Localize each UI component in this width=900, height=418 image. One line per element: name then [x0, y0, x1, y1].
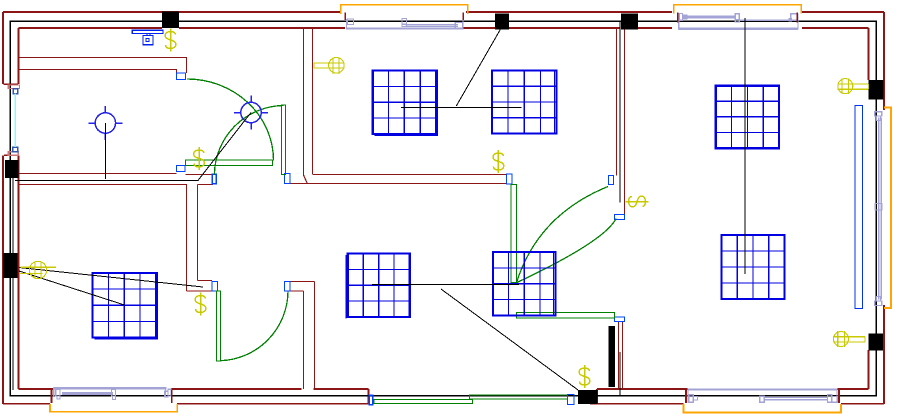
light panel grid3: [716, 86, 779, 149]
jamb J6: [507, 174, 513, 184]
window N1 sill (orange): [341, 5, 468, 14]
wall inner red right: [868, 28, 870, 389]
door E leaf: [517, 313, 615, 319]
jamb J5: [285, 282, 291, 292]
wall light WL1: [314, 58, 345, 74]
jamb J3: [285, 174, 291, 184]
window S3 sill (orange): [684, 404, 842, 413]
switch S3: [493, 150, 504, 173]
sliding door leaf 2: [470, 395, 568, 399]
switch S2: [194, 147, 205, 170]
switch S6: [579, 365, 590, 388]
wall outer red top: [3, 11, 884, 13]
window N1 stubs (red): [345, 13, 463, 21]
jamb J4: [212, 282, 218, 292]
wall outer red bottom: [3, 403, 884, 405]
door C arc: [517, 187, 609, 283]
jamb J9: [615, 317, 625, 322]
wire light L2 to switch: [198, 113, 251, 181]
wall light WL3: [838, 78, 869, 94]
wire west wall: [12, 177, 14, 390]
wire to column C2: [456, 29, 500, 106]
wall light WL4: [833, 331, 865, 347]
ceiling light L1: [89, 106, 123, 140]
wall outer red right: [883, 12, 885, 404]
light panel grid7: [722, 235, 785, 299]
light panel grid6: [493, 252, 556, 316]
column C6 east wall: [869, 80, 884, 100]
door D arc: [517, 219, 616, 283]
wall inner red left: [18, 28, 20, 389]
wall inner red top: [19, 27, 869, 29]
wall interior hall east upper: [304, 28, 313, 184]
column C7 east wall: [869, 334, 884, 351]
wire interior wall: [619, 352, 621, 396]
window W caps (red): [3, 84, 18, 155]
switch S1: [165, 29, 176, 52]
window N1 frame: [346, 19, 463, 30]
wire column C5 to grid4: [19, 271, 125, 305]
switch S4 (rotated): [626, 196, 649, 207]
jamb J7: [609, 176, 614, 185]
wire grid1-grid2: [401, 107, 522, 109]
wire light L1 drop: [104, 123, 106, 179]
switch S5: [195, 293, 206, 316]
window N2 frame: [679, 14, 798, 30]
wall interior left room south: [19, 174, 213, 292]
wall interior hall east lower: [290, 282, 315, 390]
jamb J10: [369, 395, 372, 404]
wall outer red left: [2, 12, 4, 404]
light panel grid5: [346, 254, 409, 319]
window S1 sill (orange): [50, 404, 177, 412]
door F leaf: [217, 291, 221, 361]
column C8 south wall: [578, 390, 598, 404]
light panel grid1: [373, 70, 438, 136]
jamb J1: [177, 73, 186, 80]
wall interior top-left strip: [19, 58, 187, 74]
jamb J8: [615, 215, 625, 220]
window S1 frame: [53, 387, 171, 399]
light panel grid2: [492, 71, 557, 134]
jamb J2: [177, 166, 186, 172]
wire column C5 to door switch: [19, 268, 203, 288]
jamb J11: [568, 395, 575, 405]
column C9 interior black bar: [609, 326, 616, 387]
window E sill (orange): [884, 108, 891, 309]
wire to south switch: [441, 289, 578, 390]
door B arc: [214, 106, 283, 175]
window S3 frame: [688, 389, 838, 403]
light panel grid4: [93, 272, 158, 339]
door A leaf: [186, 160, 273, 166]
wire along wall to switch: [15, 180, 198, 182]
column C4 west wall: [5, 160, 19, 178]
column C2 top wall: [495, 14, 509, 30]
wall end caps at sliding door: [369, 389, 598, 404]
ceiling light L2: [234, 96, 268, 130]
door B leaf: [282, 105, 286, 175]
wall interior mid-room south band: [290, 175, 507, 184]
window W frame (pink boxes): [8, 85, 19, 155]
wire north wall to grid3/grid7: [744, 18, 746, 274]
window S1 stubs (red): [52, 389, 172, 403]
sliding door leaf 1: [374, 400, 473, 404]
door A arc: [187, 79, 274, 161]
window S3 stubs (red): [686, 389, 839, 403]
column C5 west wall: [3, 253, 18, 278]
wall inner red bottom: [19, 388, 869, 390]
wall light WL2: [20, 261, 56, 278]
wall interior door F stubs: [187, 281, 213, 292]
wall centerline mid/right upper (black): [619, 21, 621, 203]
wall interior mid/right upper: [617, 28, 625, 215]
window W glass (cyan): [14, 94, 16, 148]
window E frame: [875, 112, 882, 306]
column C3 top wall: [621, 14, 638, 30]
column C1 top wall: [162, 12, 179, 29]
door C leaf: [511, 185, 517, 283]
window W grips (blue): [13, 89, 18, 152]
wall interior mid/right lower: [619, 322, 623, 390]
window N2 stubs (red): [678, 13, 797, 23]
door F arc: [221, 292, 289, 361]
wire grid5 to grid6: [372, 284, 519, 286]
window N2 sill (orange): [674, 5, 801, 14]
jamb J12: [212, 174, 216, 183]
